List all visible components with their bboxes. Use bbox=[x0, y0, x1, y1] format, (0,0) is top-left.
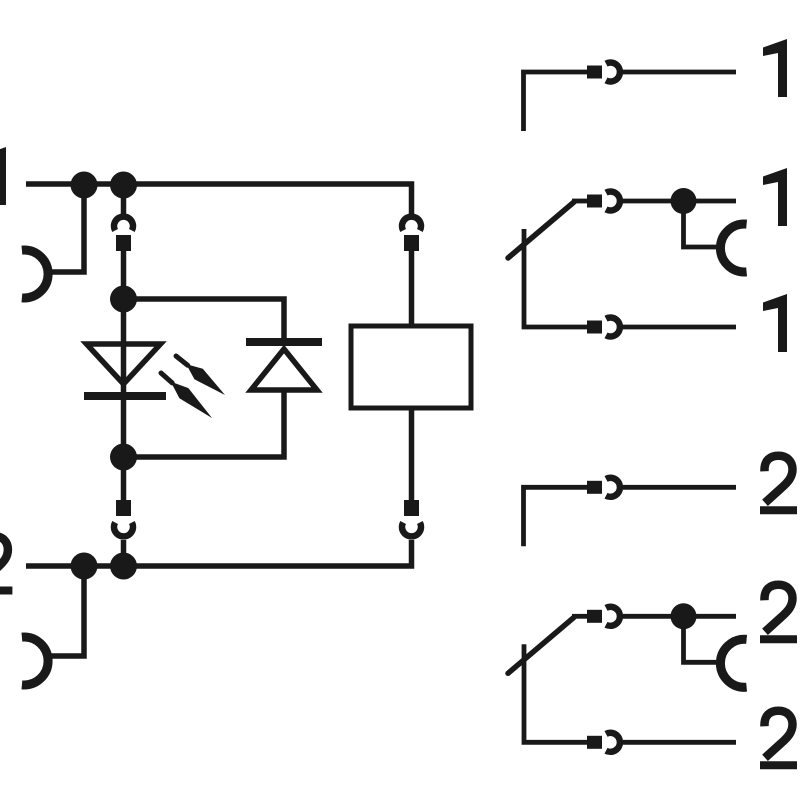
freewheeling diode triangle (pointing up) bbox=[251, 349, 317, 390]
switch arm (changeover contact 11) bbox=[508, 202, 574, 258]
wire: plug to relay coil bbox=[409, 251, 415, 328]
wire to terminal 21 bbox=[696, 614, 736, 619]
wire to terminal 12 bbox=[623, 325, 736, 330]
wire: bottom node to lower plug contact bbox=[121, 470, 127, 502]
plug socket arc (open down) above relay coil bbox=[402, 217, 421, 231]
plug socket arc (open up) below relay coil bbox=[402, 523, 421, 537]
plug pin square, contact 24 bbox=[587, 481, 602, 494]
junction dot: LED top node bbox=[110, 286, 137, 313]
plug pin square, common 11 bbox=[587, 195, 602, 208]
clamp socket arc (female, open left) for 21 bbox=[720, 639, 746, 687]
junction dot on A2 bus (left) bbox=[71, 553, 98, 580]
junction dot on common 11 bbox=[671, 188, 697, 214]
LED light arrow (upper) bbox=[176, 356, 188, 365]
plug pin square on lower input branch bbox=[116, 500, 131, 516]
wire to terminal 11 bbox=[696, 199, 736, 204]
plug socket arc, contact 12 bbox=[606, 318, 620, 337]
LED cathode bar bbox=[84, 392, 166, 400]
terminal label 21 (second digit clipped) bbox=[764, 585, 792, 632]
terminal label A2 (digit 2, clipped at left edge) bbox=[0, 536, 8, 583]
plug socket arc, contact 22 bbox=[606, 733, 620, 752]
plug pin square above relay coil bbox=[404, 235, 419, 251]
wire to terminal 24 bbox=[623, 485, 736, 490]
terminal label 14 (second digit clipped) bbox=[763, 39, 787, 97]
wire: NO throw stub (contact 14) bbox=[524, 72, 589, 131]
LED light arrow (lower) bbox=[161, 373, 172, 383]
wire: left dot down to clamp socket stub bbox=[46, 185, 84, 272]
plug pin square, contact 22 bbox=[587, 736, 602, 749]
wire: right dot down to plug contact bbox=[121, 198, 127, 215]
plug pin square, contact 12 bbox=[587, 321, 602, 334]
terminal label 22 (second digit clipped) bbox=[764, 711, 792, 758]
wire: relay coil to lower plug bbox=[409, 408, 415, 502]
wire: left dot down to lower clamp socket stub bbox=[46, 566, 84, 656]
wire to terminal 22 bbox=[623, 740, 736, 745]
wire: LED to bottom node bbox=[121, 396, 127, 446]
wire: top of freewheeling-diode loop bbox=[124, 299, 285, 342]
wire: plug to junction bbox=[623, 199, 671, 204]
plug pin square, contact 14 bbox=[587, 66, 602, 79]
plug socket arc, common 21 bbox=[606, 607, 620, 626]
plug pin square below relay coil bbox=[404, 500, 419, 516]
clamp socket arc (female, open right) lower left bbox=[22, 637, 48, 685]
clamp socket arc (female, open right) upper left bbox=[22, 250, 48, 298]
wire: junction down to clamp socket bbox=[684, 628, 717, 662]
wire: junction down to clamp socket bbox=[684, 213, 717, 247]
wire: common pivot to NC contact 12 bbox=[524, 229, 588, 327]
junction dot: LED bottom node bbox=[110, 444, 137, 471]
LED indicator: triangle (anode, pointing down) bbox=[87, 344, 161, 384]
relay coil K1 (rectangle) bbox=[351, 326, 471, 408]
wire: bottom of freewheeling-diode loop bbox=[124, 388, 285, 457]
terminal label 11 (second digit clipped) bbox=[763, 168, 787, 226]
terminal label A1 (digit 1, clipped at left edge) bbox=[0, 147, 6, 205]
wire to terminal 14 bbox=[623, 70, 736, 75]
junction dot on A1 bus (right) bbox=[110, 172, 137, 199]
clamp socket arc (female, open left) for 11 bbox=[720, 224, 746, 272]
junction dot on A1 bus (left) bbox=[71, 172, 98, 199]
wire: plug to A2 bus bbox=[121, 540, 127, 554]
wire: NO throw stub (contact 24) bbox=[524, 487, 589, 546]
wire: top bus from terminal A1 to relay coil branch (with corner down) bbox=[26, 184, 412, 215]
freewheeling diode cathode bar bbox=[246, 338, 322, 346]
plug socket arc, contact 24 bbox=[606, 478, 620, 497]
wire: vertical through LED bbox=[121, 299, 127, 396]
plug socket arc, common 11 bbox=[606, 192, 620, 211]
wire: plug to LED node bbox=[121, 251, 127, 288]
plug socket arc (open down) on input branch bbox=[114, 217, 133, 231]
plug pin square on input branch bbox=[116, 235, 131, 251]
wire: arm stub to plug bbox=[572, 614, 588, 619]
wire: arm stub to plug bbox=[572, 199, 588, 204]
plug socket arc (open up) on lower input branch bbox=[114, 523, 133, 537]
wire: plug to junction bbox=[623, 614, 671, 619]
plug pin square, common 21 bbox=[587, 610, 602, 623]
plug socket arc, contact 14 bbox=[606, 63, 620, 82]
wire: common pivot to NC contact 22 bbox=[524, 644, 588, 742]
junction dot on A2 bus (right) bbox=[110, 553, 137, 580]
wire: bottom bus from terminal A2 to relay coil branch (with corner up) bbox=[26, 540, 412, 566]
junction dot on common 21 bbox=[671, 603, 697, 629]
terminal label 12 (second digit clipped) bbox=[763, 294, 787, 352]
switch arm (changeover contact 21) bbox=[508, 617, 574, 673]
terminal label 24 (second digit clipped) bbox=[764, 456, 792, 503]
